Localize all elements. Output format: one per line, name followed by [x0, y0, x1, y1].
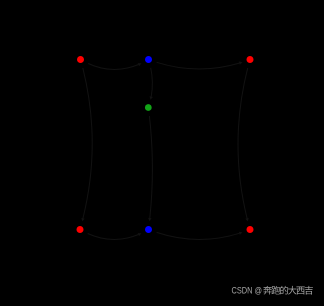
edge node1(red TL) to node2(red BL)	[83, 68, 92, 218]
edge node7(green) to node6(blue bottom)	[149, 116, 152, 218]
edge node1(red TL) to node5(blue top)	[88, 64, 138, 70]
node3 red top-right	[247, 56, 254, 63]
edge node2(red BL) to node6(blue bottom)	[88, 234, 139, 240]
edge node5(blue top) to node7(green)	[151, 68, 153, 97]
node4 red bottom-right	[247, 226, 254, 233]
svg-text:CSDN @: CSDN @	[232, 285, 263, 296]
node6 blue bottom	[145, 226, 152, 233]
node1 red top-left	[77, 56, 84, 63]
watermark CSDN @奔跑的大西吉	[232, 285, 313, 296]
edge node6(blue bottom) to node4(red BR)	[157, 232, 240, 239]
edge node5(blue top) to node3(red TR)	[157, 62, 240, 69]
edge node3(red TR) to node4(red BR)	[238, 68, 248, 218]
node7 green	[145, 104, 152, 111]
node2 red bottom-left	[77, 226, 84, 233]
node5 blue top	[145, 56, 152, 63]
